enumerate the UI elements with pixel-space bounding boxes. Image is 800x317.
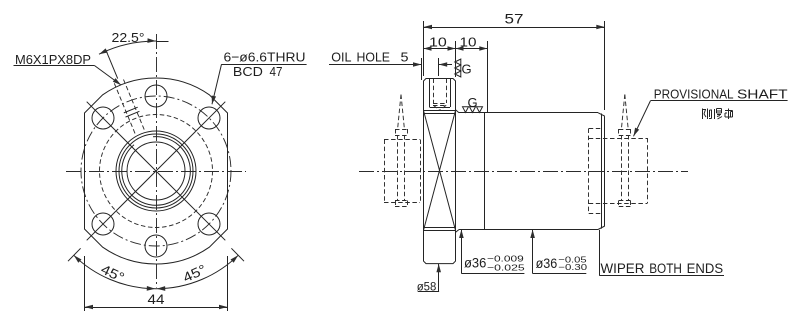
svg-text:−0.025: −0.025 — [487, 262, 525, 272]
svg-text:57: 57 — [505, 12, 524, 27]
svg-text:PROVISIONAL: PROVISIONAL — [654, 86, 734, 101]
svg-text:22.5°: 22.5° — [112, 30, 145, 45]
svg-text:HOLE: HOLE — [357, 49, 391, 64]
svg-text:ø58: ø58 — [417, 280, 437, 294]
svg-text:−0.30: −0.30 — [558, 262, 587, 272]
svg-text:10: 10 — [460, 35, 477, 50]
svg-text:ø36: ø36 — [464, 256, 486, 271]
svg-text:10: 10 — [429, 35, 447, 50]
svg-text:WIPER: WIPER — [601, 261, 645, 276]
svg-text:BOTH: BOTH — [649, 261, 682, 276]
svg-text:47: 47 — [270, 64, 283, 79]
svg-text:6−ø6.6THRU: 6−ø6.6THRU — [224, 49, 306, 64]
svg-text:SHAFT: SHAFT — [737, 86, 788, 101]
svg-text:OIL: OIL — [331, 49, 351, 64]
svg-text:M6X1PX8DP: M6X1PX8DP — [15, 52, 91, 67]
svg-text:G: G — [468, 95, 478, 110]
svg-text:44: 44 — [148, 292, 166, 307]
svg-text:ENDS: ENDS — [687, 261, 724, 276]
svg-text:G: G — [462, 62, 472, 77]
svg-text:BCD: BCD — [233, 64, 263, 79]
svg-text:ø36: ø36 — [536, 256, 558, 271]
svg-text:5: 5 — [401, 49, 409, 64]
